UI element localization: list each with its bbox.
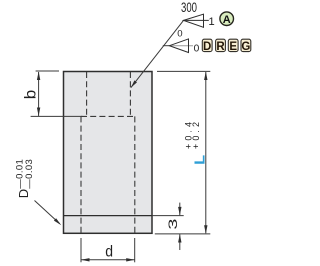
svg-text:0: 0	[177, 28, 182, 39]
part body (cylinder outline)	[64, 72, 153, 234]
dimension L: tolerance +0.4	[184, 122, 194, 149]
dimension L: top extension line	[157, 70, 210, 72]
leader line from bore to surface symbols	[131, 20, 184, 87]
svg-text:1: 1	[208, 16, 214, 28]
svg-text:3: 3	[166, 218, 180, 229]
dimension b: bottom extension line	[31, 115, 83, 117]
leader arrowhead at bore	[131, 80, 137, 87]
dimension b: dimension line	[38, 72, 40, 116]
dimension b: top extension line	[36, 70, 59, 72]
dimension b: bottom arrow	[37, 108, 40, 117]
svg-text:0: 0	[194, 44, 200, 55]
dimension b: label b	[22, 89, 39, 99]
hidden line: small bore right	[129, 72, 131, 116]
dimension D: leader line	[35, 201, 60, 224]
dimension d: right arrow	[126, 258, 135, 261]
hidden line: small bore left	[86, 72, 88, 116]
link box D	[202, 39, 212, 51]
dimension d: left arrow	[81, 258, 90, 261]
svg-text:300: 300	[181, 0, 197, 15]
dimension b: top arrow	[37, 72, 40, 81]
svg-text:D: D	[203, 41, 211, 53]
surface symbol 1 (triangle)	[184, 14, 204, 27]
svg-text:d: d	[105, 244, 113, 261]
svg-text:b: b	[22, 89, 39, 99]
svg-text:E: E	[229, 41, 237, 53]
link badge A (green circle)	[220, 12, 234, 26]
hidden line: large bore right	[134, 116, 136, 232]
dimension 3: lower dimension line with up arrow	[179, 234, 181, 250]
dimension d: left extension line	[80, 238, 82, 262]
dimension L: dimension line	[205, 72, 207, 233]
dimension d: right extension line	[134, 238, 136, 262]
svg-text:L: L	[192, 155, 208, 165]
svg-text:A: A	[223, 14, 231, 26]
link box R	[216, 39, 226, 51]
dimension d: dimension line	[81, 259, 135, 261]
bottom band line (3mm shoulder)	[64, 215, 153, 217]
hidden line: bore step shoulder	[81, 115, 135, 117]
svg-text:D: D	[16, 189, 31, 198]
surface symbol 2 (triangle)	[163, 45, 170, 47]
dimension D: label with tolerance	[14, 159, 35, 198]
dimension D: leader arrowhead	[54, 218, 61, 225]
link box G	[241, 39, 251, 51]
dimension 3: upper dimension line with down arrow	[179, 203, 181, 216]
dimension 3: extension line (shoulder, right of part)	[152, 215, 184, 217]
hidden line: large bore left	[80, 116, 82, 232]
dimension L: top arrow	[204, 72, 207, 81]
dimension L: bottom arrow	[204, 225, 207, 234]
svg-text:R: R	[216, 41, 225, 53]
svg-text:—0.03: —0.03	[24, 159, 35, 189]
dimension L: bottom extension line	[155, 233, 211, 235]
link box E	[228, 39, 238, 51]
dimension 3: label 3	[166, 218, 180, 229]
dimension L: label L (blue)	[192, 155, 208, 165]
dimension L: tolerance +0.2	[191, 122, 201, 149]
svg-text:G: G	[241, 41, 250, 53]
